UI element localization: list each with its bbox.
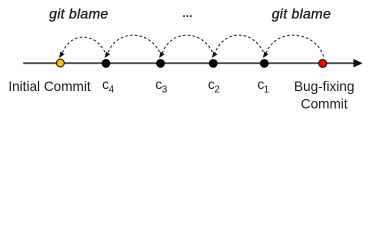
node c4 (black) xyxy=(102,59,111,68)
svg-text:Commit: Commit xyxy=(301,97,348,112)
node c1 (black) xyxy=(260,59,269,68)
arc git-blame c4-to-initial xyxy=(59,37,107,58)
arc git-blame bugfix-to-c1 xyxy=(263,35,324,58)
label c4 xyxy=(102,77,114,96)
arc git-blame c3-to-c4 xyxy=(105,35,162,58)
node bug-fixing commit (red) xyxy=(319,59,327,67)
node initial commit (yellow) xyxy=(57,59,65,67)
node c2 (black) xyxy=(209,59,218,68)
label c1 xyxy=(257,77,269,96)
node c3 (black) xyxy=(156,59,165,68)
svg-text:2: 2 xyxy=(214,85,219,96)
label ellipsis xyxy=(183,15,191,17)
label c2 xyxy=(208,77,220,96)
timeline arrowhead xyxy=(353,59,362,68)
svg-text:git blame: git blame xyxy=(272,6,331,22)
svg-text:1: 1 xyxy=(264,85,269,96)
svg-text:Bug-fixing: Bug-fixing xyxy=(294,79,354,94)
arc git-blame c1-to-c2 xyxy=(212,35,265,58)
svg-text:3: 3 xyxy=(162,85,168,96)
label c3 xyxy=(155,77,167,96)
svg-text:Initial Commit: Initial Commit xyxy=(8,79,91,94)
svg-text:4: 4 xyxy=(109,85,115,96)
wire timeline axis xyxy=(23,62,355,64)
arc git-blame c2-to-c3 xyxy=(159,35,214,58)
svg-text:git blame: git blame xyxy=(49,6,108,22)
